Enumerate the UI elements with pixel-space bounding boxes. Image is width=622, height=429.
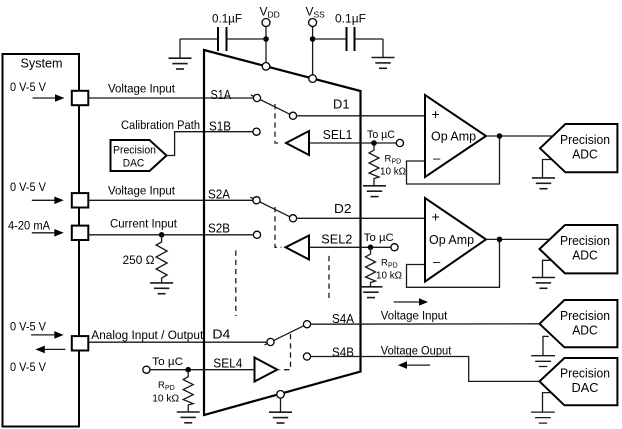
svg-text:Voltage Ouput: Voltage Ouput [381,344,452,358]
pad 3 [72,226,89,240]
svg-text:Voltage Input: Voltage Input [381,308,448,322]
svg-text:0 V-5 V: 0 V-5 V [10,360,47,374]
wire D2 to op amp [297,217,425,219]
switch arm S1 [251,95,293,116]
svg-text:ADC: ADC [572,248,598,263]
svg-text:Precision: Precision [560,233,610,248]
switch pole circle S2A [253,197,260,204]
svg-text:Current Input: Current Input [110,217,178,231]
arrow into pad1 [33,94,65,102]
VDD terminal circle [262,19,270,27]
svg-text:–: – [433,254,441,269]
svg-text:SS: SS [314,10,326,20]
switch circle S1B [253,128,260,135]
svg-text:Op Amp: Op Amp [429,232,474,247]
svg-text:Voltage Input: Voltage Input [108,184,176,198]
svg-text:SEL4: SEL4 [213,356,242,371]
VSS pin circle on chip edge [309,75,317,83]
svg-text:Analog Input / Output: Analog Input / Output [91,328,204,342]
svg-text:S4B: S4B [332,345,354,360]
svg-text:PD: PD [165,385,175,392]
svg-text:S1B: S1B [209,119,231,134]
dashed link S4 switch to SEL4 [280,334,291,370]
terminal circle SEL4 [143,366,150,373]
ground for 250 ohm [150,283,173,294]
svg-text:SEL1: SEL1 [323,127,353,142]
capacitor C1 [180,27,266,51]
switch arm S2 [250,197,293,218]
resistor RPD4 [183,370,193,412]
svg-text:Op Amp: Op Amp [431,129,476,144]
resistor RPD1 [369,143,379,186]
ground for RPD1 [363,186,386,197]
arrow out of pad4 [35,346,65,354]
inverter SEL1 [286,131,309,155]
arrow into pad4 [31,331,64,339]
svg-text:S1A: S1A [211,87,232,102]
svg-text:0 V-5 V: 0 V-5 V [10,80,47,94]
svg-text:SEL2: SEL2 [321,231,352,246]
op-amp U1 feedback wire [407,136,500,184]
arrow into pad3 [32,229,64,237]
svg-text:PD: PD [388,263,398,270]
wire D1 to op amp [297,115,425,117]
wire S1B from DAC to switch [167,132,254,156]
precision ADC 3 [540,300,618,347]
switch throw circle D1 [289,112,296,119]
svg-text:0.1µF: 0.1µF [212,12,242,26]
svg-text:R: R [381,258,388,269]
ground for C2 [372,39,395,68]
svg-text:Calibration Path: Calibration Path [121,118,200,132]
precision ADC 1 [540,124,617,172]
svg-text:10 kΩ: 10 kΩ [376,270,402,282]
svg-text:D1: D1 [333,97,350,112]
op-amp U1 [425,95,486,177]
svg-text:D4: D4 [212,327,230,342]
svg-text:PD: PD [392,159,402,166]
junction op-amp U2 output [497,237,503,243]
wire S1A from pad to switch [88,97,254,99]
svg-text:ADC: ADC [572,323,598,338]
switch arm S4 [265,324,308,345]
dashed continuation line (left) [235,251,237,317]
svg-text:10 kΩ: 10 kΩ [380,166,406,178]
precision DAC (left) [111,140,167,171]
ground for RPD4 [177,412,200,423]
svg-text:D2: D2 [334,201,352,216]
pad 4 [72,336,89,350]
capacitor C2 [313,27,383,51]
terminal circle SEL2 [391,244,398,251]
switch circle S4B [303,353,310,360]
system box [3,54,80,427]
switch pole circle D4 [267,338,274,345]
svg-text:–: – [433,150,441,165]
svg-text:+: + [432,208,440,224]
wire VSS [312,27,314,75]
ground for ADC 2 [532,260,555,288]
switch pole circle S1A [253,94,260,101]
inverter SEL4 [255,358,278,382]
dashed continuation line (right) [328,256,330,302]
wire S2A from pad to switch [88,199,253,201]
svg-text:10 kΩ: 10 kΩ [152,393,179,405]
junction SEL1/RPD1 [371,140,377,146]
op-amp U2 [425,198,486,282]
svg-text:Precision: Precision [560,308,610,323]
svg-text:DAC: DAC [572,380,599,395]
dashed link S2 switch to SEL2 [275,207,282,247]
svg-text:0.1µF: 0.1µF [335,12,366,26]
svg-text:V: V [306,5,314,19]
VSS terminal circle [309,19,317,27]
pad 1 [72,91,89,105]
junction VDD [263,36,269,42]
ground for chip [269,398,292,423]
svg-text:S2A: S2A [208,187,230,202]
ground for DAC 4 [531,393,555,424]
inverter SEL2 [286,236,310,260]
ground for RPD2 [360,287,383,298]
ground for C1 [169,39,192,69]
arrow right (S4A) [394,298,428,306]
junction SEL2/RPD2 [368,245,374,251]
wire VDD [265,27,267,63]
svg-text:To µC: To µC [364,232,394,244]
mux chip outline [204,50,361,415]
pad 2 [72,193,89,207]
svg-text:Precision: Precision [560,365,610,380]
resistor RPD2 [366,247,376,286]
precision ADC 2 [540,225,618,273]
svg-text:R: R [158,380,165,391]
precision DAC 4 [540,358,618,405]
junction op-amp U1 output [497,133,503,139]
svg-text:Voltage Input: Voltage Input [108,82,176,96]
svg-text:DAC: DAC [123,157,145,169]
op-amp U2 feedback wire [407,239,500,287]
svg-text:R: R [385,154,392,165]
svg-text:Precision: Precision [560,132,610,147]
junction VSS [310,36,316,42]
wire S4B to DAC4 [311,357,540,382]
svg-text:Precision: Precision [113,145,156,157]
svg-text:4-20 mA: 4-20 mA [8,218,51,232]
svg-text:+: + [432,106,440,122]
wire S4A to ADC3 [311,323,540,325]
svg-text:S2B: S2B [208,221,230,236]
switch circle S2B [253,231,260,238]
junction S2B/250ohm [159,232,165,238]
svg-text:0 V-5 V: 0 V-5 V [10,180,47,194]
wire S2B from pad to switch [88,234,254,236]
wire D4 from pad to switch [88,341,268,343]
svg-text:V: V [260,5,268,19]
arrow into pad2 [32,197,64,205]
svg-text:System: System [21,56,63,71]
switch throw circle D2 [289,215,296,222]
wire SEL4 [150,369,254,371]
svg-text:250 Ω: 250 Ω [123,253,155,267]
svg-text:ADC: ADC [572,147,598,162]
svg-text:0 V-5 V: 0 V-5 V [10,320,47,334]
VDD pin circle on chip edge [262,63,270,71]
svg-text:DD: DD [268,10,280,20]
arrow left (S4B) [398,361,430,369]
svg-text:To µC: To µC [367,129,395,141]
wire op-amp U1 output [486,135,552,137]
dashed link S1 switch to SEL1 [275,104,282,143]
wire op-amp U2 output [486,238,549,240]
ground for ADC 3 [531,336,555,366]
terminal circle SEL1 [396,139,403,146]
svg-text:To µC: To µC [152,356,183,368]
chip ground pin circle on bottom edge [277,391,285,399]
switch throw circle S4A [303,321,310,328]
wire SEL2 [309,246,391,248]
resistor 250 ohm [156,235,167,283]
ground for ADC 1 [532,160,555,189]
junction SEL4/RPD4 [185,367,191,373]
wire SEL1 [309,142,396,144]
